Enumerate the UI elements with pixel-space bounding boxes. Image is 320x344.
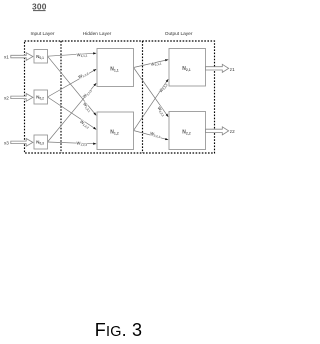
dashed divider input/hidden (60, 41, 62, 153)
svg-text:300: 300 (32, 1, 47, 11)
svg-text:Hidden Layer: Hidden Layer (83, 31, 112, 37)
svg-text:x1: x1 (4, 55, 9, 60)
wire hidden H2 to output O1 (134, 79, 169, 130)
svg-text:Input Layer: Input Layer (30, 31, 54, 37)
svg-text:z1: z1 (230, 67, 235, 72)
input arrow x3 (4, 139, 33, 147)
hidden node N1,1 (97, 49, 134, 87)
wire input B3 to hidden H2 (48, 142, 97, 144)
output node N2,2 (169, 112, 206, 150)
wire hidden H1 to output O1 (134, 60, 169, 68)
wire hidden H1 to output O2 (134, 68, 169, 117)
svg-text:x2: x2 (4, 95, 9, 100)
wire input B3 to hidden H1 (48, 83, 97, 142)
wire input B2 to hidden H1 (48, 69, 97, 97)
wire input B2 to hidden H2 (48, 97, 97, 129)
output arrow z1 (206, 64, 236, 72)
output arrow z2 (206, 127, 236, 135)
input node N0,3 (34, 135, 48, 149)
dashed boundary box (25, 41, 215, 153)
wire input B1 to hidden H2 (48, 56, 97, 115)
svg-text:Output Layer: Output Layer (165, 31, 193, 37)
output node N2,1 (169, 49, 206, 87)
input arrow x2 (4, 94, 33, 102)
svg-text:z2: z2 (230, 129, 235, 134)
svg-text:x3: x3 (4, 140, 9, 145)
dashed divider hidden/output (142, 41, 144, 153)
reference numeral 300 (32, 1, 47, 11)
input node N0,1 (34, 50, 48, 64)
hidden node N1,2 (97, 112, 134, 150)
input arrow x1 (4, 53, 33, 61)
wire input B1 to hidden H1 (48, 53, 97, 56)
input node N0,2 (34, 90, 48, 104)
wire hidden H2 to output O2 (134, 131, 169, 140)
